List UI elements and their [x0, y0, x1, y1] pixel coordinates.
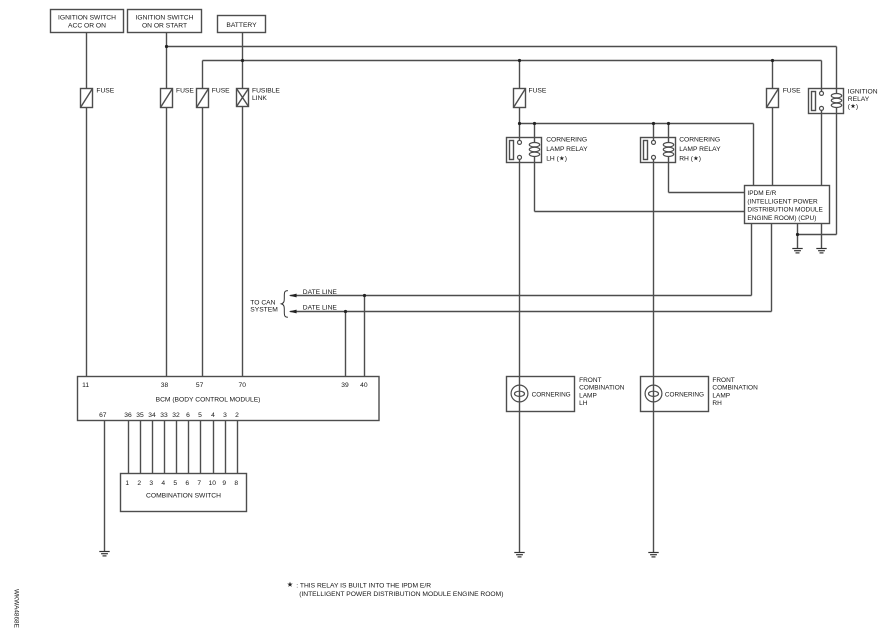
svg-text:): ) [856, 104, 858, 111]
svg-text:34: 34 [148, 412, 156, 419]
svg-text:7: 7 [197, 480, 201, 487]
svg-text:1: 1 [125, 480, 129, 487]
svg-text:WKWA4868E: WKWA4868E [13, 589, 20, 628]
svg-text:2: 2 [235, 412, 239, 419]
svg-text:38: 38 [161, 382, 169, 389]
svg-text:): ) [565, 156, 567, 163]
svg-text:RH: RH [712, 400, 722, 407]
svg-text:3: 3 [149, 480, 153, 487]
svg-text:IGNITION SWITCH: IGNITION SWITCH [136, 15, 194, 22]
svg-text:6: 6 [186, 412, 190, 419]
svg-text:LH: LH [579, 400, 588, 407]
svg-text:COMBINATION SWITCH: COMBINATION SWITCH [146, 492, 221, 499]
svg-text:8: 8 [234, 480, 238, 487]
svg-text:33: 33 [160, 412, 168, 419]
svg-text:IPDM E/R: IPDM E/R [747, 190, 776, 197]
svg-text:ACC OR ON: ACC OR ON [68, 23, 106, 30]
svg-text:70: 70 [238, 382, 246, 389]
svg-text:11: 11 [82, 382, 89, 389]
svg-text:RH (: RH ( [679, 156, 694, 163]
svg-text:DISTRIBUTION MODULE: DISTRIBUTION MODULE [747, 207, 823, 214]
svg-text:LINK: LINK [252, 95, 267, 102]
svg-text:): ) [699, 156, 701, 163]
svg-text:IGNITION SWITCH: IGNITION SWITCH [58, 15, 116, 22]
svg-text:CORNERING: CORNERING [546, 136, 587, 143]
svg-text:67: 67 [99, 412, 107, 419]
svg-text:COMBINATION: COMBINATION [579, 385, 625, 392]
svg-text:FUSIBLE: FUSIBLE [252, 88, 280, 95]
svg-text:COMBINATION: COMBINATION [712, 385, 758, 392]
svg-text:LAMP RELAY: LAMP RELAY [679, 146, 721, 153]
svg-text:3: 3 [223, 412, 227, 419]
svg-text:ENGINE ROOM) (CPU): ENGINE ROOM) (CPU) [747, 215, 816, 222]
svg-text:(INTELLIGENT POWER DISTRIBUTIO: (INTELLIGENT POWER DISTRIBUTION MODULE E… [299, 591, 503, 598]
svg-text:FRONT: FRONT [712, 377, 734, 384]
svg-text:FUSE: FUSE [96, 88, 114, 95]
svg-text:32: 32 [172, 412, 180, 419]
svg-text:BCM (BODY CONTROL MODULE): BCM (BODY CONTROL MODULE) [156, 397, 261, 404]
svg-text:4: 4 [211, 412, 215, 419]
svg-text:36: 36 [124, 412, 132, 419]
svg-text:BATTERY: BATTERY [226, 22, 257, 29]
svg-text:TO CAN: TO CAN [250, 299, 275, 306]
svg-text:4: 4 [161, 480, 165, 487]
svg-text:39: 39 [341, 382, 349, 389]
svg-text:SYSTEM: SYSTEM [250, 306, 278, 313]
svg-text:FRONT: FRONT [579, 377, 601, 384]
svg-text:FUSE: FUSE [176, 88, 194, 95]
svg-text:IGNITION: IGNITION [848, 88, 878, 95]
svg-text:RELAY: RELAY [848, 96, 870, 103]
svg-text:: THIS RELAY IS BUILT INTO THE: : THIS RELAY IS BUILT INTO THE IPDM E/R [296, 582, 431, 589]
svg-text:CORNERING: CORNERING [532, 391, 571, 398]
svg-text:CORNERING: CORNERING [679, 136, 720, 143]
svg-text:FUSE: FUSE [212, 88, 230, 95]
svg-text:LAMP RELAY: LAMP RELAY [546, 146, 588, 153]
svg-text:LAMP: LAMP [712, 392, 730, 399]
svg-text:5: 5 [198, 412, 202, 419]
svg-text:40: 40 [360, 382, 368, 389]
svg-text:FUSE: FUSE [783, 88, 801, 95]
svg-text:(INTELLIGENT POWER: (INTELLIGENT POWER [747, 199, 818, 206]
svg-text:DATE LINE: DATE LINE [303, 289, 338, 296]
svg-text:9: 9 [222, 480, 226, 487]
svg-text:35: 35 [136, 412, 144, 419]
svg-text:LAMP: LAMP [579, 392, 597, 399]
svg-text:CORNERING: CORNERING [665, 391, 704, 398]
svg-text:LH (: LH ( [546, 156, 559, 163]
svg-text:ON OR START: ON OR START [142, 23, 187, 30]
svg-text:10: 10 [208, 480, 216, 487]
svg-text:FUSE: FUSE [529, 88, 547, 95]
svg-text:5: 5 [173, 480, 177, 487]
svg-text:6: 6 [185, 480, 189, 487]
svg-text:2: 2 [137, 480, 141, 487]
svg-text:57: 57 [196, 382, 204, 389]
svg-text:DATE LINE: DATE LINE [303, 304, 338, 311]
